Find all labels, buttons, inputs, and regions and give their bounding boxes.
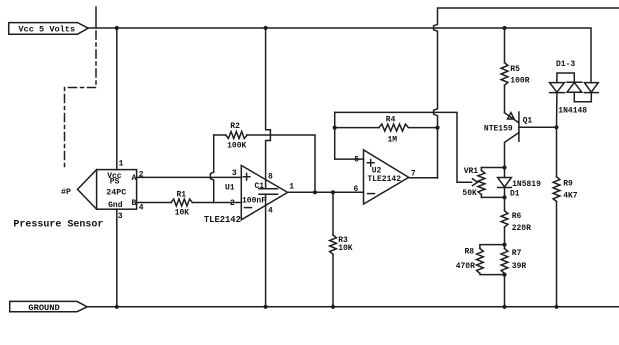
svg-text:24PC: 24PC [106, 189, 126, 198]
ground flag GROUND [10, 301, 88, 313]
svg-text:4: 4 [139, 204, 144, 213]
wire output line to top edge [434, 8, 619, 178]
node ground/pin3 [115, 305, 119, 309]
node Vcc/R5 [502, 26, 506, 30]
wire ground rail [87, 306, 619, 308]
node R7/R8 top junction [502, 243, 506, 247]
svg-text:TLE2142: TLE2142 [367, 175, 401, 184]
wire U2 output [409, 177, 438, 179]
wire sensor pin3 to ground [116, 209, 118, 307]
svg-text:Q1: Q1 [523, 117, 533, 126]
node R7/R8 bottom junction [502, 273, 506, 277]
wire VR1 bottom to node [481, 196, 504, 198]
node R4 left junction [333, 126, 337, 130]
svg-text:D1: D1 [510, 190, 520, 199]
svg-text:C1: C1 [255, 182, 265, 191]
svg-text:50K: 50K [462, 189, 477, 198]
op-amp U2 TLE2142 [354, 150, 416, 204]
svg-text:2: 2 [139, 171, 144, 180]
wire Vcc rail [88, 28, 591, 83]
wire sensor B to R1 [137, 202, 171, 204]
svg-text:R8: R8 [465, 248, 475, 257]
svg-text:TLE2142: TLE2142 [204, 215, 241, 225]
svg-text:5: 5 [354, 156, 359, 165]
svg-text:470R: 470R [456, 262, 475, 271]
wire pin5 feedback top line to wiper [335, 112, 472, 182]
wire R1 to U1 pin2 [192, 202, 241, 204]
svg-text:Gnd: Gnd [108, 201, 123, 210]
wire VR1 top to node [481, 167, 504, 169]
node Vcc/pin8 [264, 26, 268, 30]
svg-text:100R: 100R [510, 77, 529, 86]
svg-text:1: 1 [289, 183, 294, 192]
svg-text:NTE159: NTE159 [484, 124, 513, 133]
resistor R4 1M [335, 116, 438, 145]
capacitor C1 100nF [242, 182, 278, 205]
svg-text:4K7: 4K7 [563, 192, 578, 201]
svg-text:VR1: VR1 [464, 167, 479, 176]
svg-text:R9: R9 [563, 179, 573, 188]
svg-text:R4: R4 [386, 116, 396, 125]
node Vcc/pin1 [115, 26, 119, 30]
resistor R9 4K7 [553, 127, 578, 306]
resistor R2 100K [214, 122, 247, 150]
svg-text:R5: R5 [510, 65, 520, 74]
wire U2 pin5 leg [335, 112, 364, 159]
svg-text:4: 4 [268, 206, 273, 215]
potentiometer VR1 50K [462, 167, 485, 198]
pressure sensor PS 24PC [78, 159, 144, 221]
svg-text:R6: R6 [512, 212, 522, 221]
wire dashed pressure port path [65, 31, 97, 170]
transistor Q1 NTE159 [484, 112, 557, 168]
svg-text:3: 3 [232, 169, 237, 178]
resistor R7 39R [501, 245, 526, 307]
wire Vcc to sensor pin1 [116, 28, 118, 170]
diode D1 1N5819 [498, 168, 542, 199]
node collector/VR1/D1 junction [502, 165, 506, 169]
svg-text:10K: 10K [338, 244, 353, 253]
resistor R6 220R [501, 197, 531, 244]
svg-text:GROUND: GROUND [28, 303, 59, 313]
node ground/R7 [502, 305, 506, 309]
wire R2 left leg (jog over pin3 wire) [210, 135, 213, 203]
wire D1-3 to base node [556, 93, 558, 128]
wire dashed pressure port vertical upper [95, 7, 97, 28]
node ground/R3 [331, 305, 335, 309]
svg-text:10K: 10K [175, 208, 190, 217]
svg-text:220R: 220R [512, 224, 531, 233]
svg-text:100nF: 100nF [242, 197, 266, 206]
svg-text:A: A [132, 174, 137, 183]
svg-text:100K: 100K [227, 141, 246, 150]
svg-text:2: 2 [230, 199, 235, 208]
svg-text:1M: 1M [388, 135, 398, 144]
node ground/pin4 [264, 305, 268, 309]
wire U1 pin4 to ground [265, 194, 267, 307]
svg-text:1: 1 [119, 159, 124, 168]
wire U1 output to U2 pin6 [288, 191, 364, 193]
svg-text:R7: R7 [512, 249, 522, 258]
node Q1 base junction [554, 125, 558, 129]
svg-text:R1: R1 [177, 190, 187, 199]
op-amp U1 TLE2142 [204, 165, 294, 225]
power flag Vcc 5 Volts [9, 23, 89, 35]
node output/R2 junction [313, 190, 317, 194]
svg-text:#P: #P [61, 187, 71, 197]
svg-text:U1: U1 [225, 184, 235, 193]
svg-text:39R: 39R [512, 262, 527, 271]
svg-text:1N4148: 1N4148 [558, 106, 587, 115]
node pin6/R3 junction [331, 190, 335, 194]
svg-text:Vcc 5 Volts: Vcc 5 Volts [18, 25, 75, 35]
svg-text:Pressure Sensor: Pressure Sensor [13, 220, 103, 231]
svg-text:PS: PS [110, 178, 120, 187]
diode chain D1-3 1N4148 [550, 60, 599, 115]
resistor R5 100R [501, 28, 530, 113]
resistor R3 10K [330, 192, 353, 306]
svg-text:1N5819: 1N5819 [512, 180, 541, 189]
node D1/VR1 bottom junction [502, 195, 506, 199]
svg-text:8: 8 [268, 173, 273, 182]
svg-text:3: 3 [118, 212, 123, 221]
resistor R1 10K [171, 190, 192, 217]
svg-text:6: 6 [354, 185, 359, 194]
node R4 right junction [435, 126, 439, 130]
wire Vcc to U1 pin8 (jog around R2 wire) [266, 28, 271, 189]
wire sensor A to U1 pin3 [137, 176, 242, 178]
node ground/R9 [554, 305, 558, 309]
svg-text:R2: R2 [230, 122, 240, 131]
resistor R8 470R [456, 245, 505, 275]
svg-text:D1-3: D1-3 [556, 60, 575, 69]
svg-text:B: B [132, 199, 137, 208]
wire R2 right to output node [247, 135, 315, 192]
